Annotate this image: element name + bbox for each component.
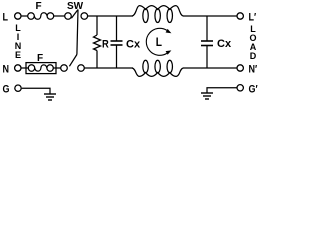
wire top rail bbox=[88, 15, 133, 17]
resistor R bbox=[94, 35, 101, 51]
inductor L bottom winding bbox=[132, 68, 183, 76]
wire bbox=[183, 67, 237, 69]
fuse F1 bbox=[28, 13, 35, 20]
fuse F2 bbox=[28, 65, 34, 71]
svg-text:R: R bbox=[102, 39, 109, 51]
svg-text:E: E bbox=[15, 50, 21, 60]
svg-text:Cx: Cx bbox=[217, 38, 232, 50]
switch SW pole 1 bbox=[65, 13, 72, 20]
wire bbox=[22, 88, 50, 94]
wire bbox=[183, 15, 237, 17]
ground right bbox=[201, 92, 213, 94]
fuse F2 holder box bbox=[26, 63, 56, 74]
inductor core arrow bbox=[146, 28, 167, 55]
terminal N' bbox=[237, 65, 243, 71]
terminal N bbox=[15, 65, 21, 71]
resistor R lower wire bbox=[96, 51, 98, 69]
svg-text:L: L bbox=[156, 36, 162, 49]
capacitor Cx2 bbox=[206, 16, 208, 41]
svg-text:N′: N′ bbox=[249, 64, 258, 76]
switch gang link bbox=[77, 10, 78, 55]
ground left bbox=[44, 93, 56, 95]
svg-text:SW: SW bbox=[67, 1, 84, 12]
inductor L top winding bbox=[132, 6, 183, 16]
terminal G bbox=[15, 85, 21, 91]
terminal G' bbox=[237, 85, 243, 91]
svg-text:F: F bbox=[36, 1, 42, 12]
wire bbox=[22, 15, 28, 17]
wire bottom rail bbox=[84, 67, 133, 69]
capacitor Cx1 bbox=[116, 16, 118, 41]
wire bbox=[22, 67, 29, 69]
svg-text:N: N bbox=[3, 64, 10, 76]
switch SW pole 2 bbox=[61, 65, 68, 72]
terminal L' bbox=[237, 13, 243, 19]
wire bbox=[56, 67, 61, 69]
svg-text:G: G bbox=[3, 84, 10, 96]
wire bbox=[207, 88, 237, 93]
svg-text:Cx: Cx bbox=[126, 39, 141, 51]
svg-text:D: D bbox=[250, 51, 257, 61]
svg-text:G′: G′ bbox=[249, 84, 259, 96]
svg-text:L′: L′ bbox=[249, 12, 257, 24]
resistor R branch wire bbox=[96, 16, 98, 35]
terminal L bbox=[15, 13, 21, 19]
svg-text:L: L bbox=[3, 12, 9, 24]
wire bbox=[54, 15, 65, 17]
